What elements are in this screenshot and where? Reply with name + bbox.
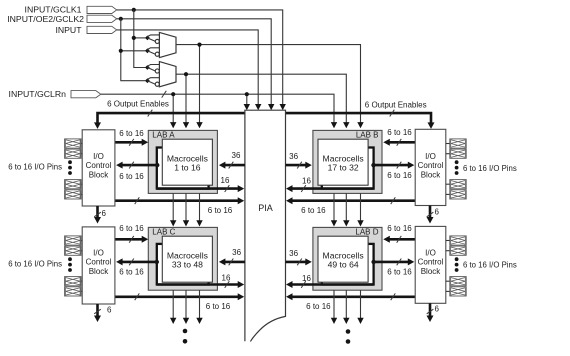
I/O pin LL3 (65, 277, 83, 286)
wire mux U1 output to LAB B drop (176, 45, 364, 129)
svg-text:Control: Control (86, 161, 112, 170)
input pin INPUT/GCLK1 (25, 5, 117, 15)
node mux U1 output junction (197, 43, 201, 47)
bus LAB B to PIA 16 (286, 177, 374, 193)
bus PIA to LAB D 36 (286, 249, 312, 265)
mux U1 trapezoid (159, 32, 176, 57)
wire GCLRn drop to LAB A (170, 94, 176, 128)
svg-text:Block: Block (421, 267, 442, 276)
svg-text:I/O: I/O (93, 152, 104, 161)
I/O pin LR2 (446, 246, 466, 255)
svg-text:I/O: I/O (425, 152, 436, 161)
svg-text:Control: Control (86, 258, 112, 267)
bus right I/O block to PIA 6 to 16 (286, 197, 415, 215)
svg-text:6 to 16: 6 to 16 (206, 302, 231, 311)
I/O pin UR1 (446, 139, 466, 148)
bus upper left I/O block 6 down (94, 206, 107, 224)
input pin INPUT (55, 25, 116, 35)
node LAB C continuation dots (183, 329, 188, 344)
wire mux U2 output to LAB B drop (176, 74, 350, 128)
wire GCLK1 horizontal then down to PIA (117, 10, 286, 110)
svg-text:36: 36 (289, 152, 298, 161)
svg-text:I/O: I/O (93, 248, 104, 257)
wire LAB A to LAB C global lines (170, 193, 203, 226)
wire GCLK2 vertical drop to mux inputs (121, 19, 146, 81)
node UL pin dots (68, 160, 72, 175)
wire mux U1 output drop to LAB A (196, 45, 202, 129)
svg-text:Block: Block (89, 170, 110, 179)
svg-text:6 to 16 I/O Pins: 6 to 16 I/O Pins (463, 261, 517, 270)
I/O pin UR2 (446, 149, 466, 158)
wire GCLRn horizontal then down to LAB B (101, 91, 337, 129)
node UR pin dots (455, 160, 459, 175)
wire INPUT horizontal then down to PIA (117, 30, 262, 110)
svg-text:6 Output Enables: 6 Output Enables (107, 100, 169, 109)
svg-text:INPUT/OE2/GCLK2: INPUT/OE2/GCLK2 (7, 14, 84, 24)
I/O pin LL2 (65, 246, 83, 255)
wire mux U2 output drop to LAB A (183, 74, 189, 128)
svg-text:6 to 16: 6 to 16 (306, 302, 331, 311)
input pin INPUT/OE2/GCLK2 (7, 14, 116, 24)
svg-text:6 to 16: 6 to 16 (301, 206, 326, 215)
bus PIA to LAB B 36 (286, 152, 312, 168)
I/O pin LL1 (65, 236, 83, 245)
node GCLK1 tap junction (132, 8, 136, 12)
svg-text:16: 16 (302, 274, 311, 283)
mux U1 input diamond A (145, 35, 160, 42)
bus LAB D to PIA 16 (286, 274, 374, 288)
svg-text:6: 6 (435, 207, 440, 216)
PIA block (245, 110, 286, 341)
bus lower right I/O block to PIA 6 to 16 (286, 293, 415, 311)
LAB A block (148, 130, 217, 193)
svg-text:6 to 16 I/O Pins: 6 to 16 I/O Pins (8, 260, 62, 269)
svg-text:49 to 64: 49 to 64 (328, 260, 359, 270)
svg-text:6 to 16: 6 to 16 (387, 268, 412, 277)
wire LAB C continuation arrows (170, 290, 203, 324)
bus I/O block to LAB D 6 to 16 (383, 224, 415, 243)
svg-text:16: 16 (302, 177, 311, 186)
svg-text:6 to 16: 6 to 16 (119, 224, 144, 233)
svg-text:LAB D: LAB D (355, 228, 378, 237)
I/O pin UL2 (65, 149, 83, 158)
node LL pin dots (68, 257, 72, 272)
mux U2 input bubble B (155, 82, 159, 86)
svg-text:6 to 16: 6 to 16 (119, 268, 144, 277)
I/O pin UR3 (446, 180, 466, 189)
svg-text:6 to 16: 6 to 16 (208, 206, 233, 215)
bus LAB C to I/O block 6 to 16 (116, 258, 159, 276)
bus PIA to LAB A 36 (219, 151, 245, 169)
node GCLK2-mux1 junction (119, 49, 123, 53)
node GCLK2 tap junction (119, 17, 123, 21)
bus I/O block to LAB C 6 to 16 (115, 224, 148, 243)
node LAB D continuation dots (346, 329, 351, 344)
LAB D block (313, 227, 382, 290)
I/O pin UR4 (446, 190, 466, 199)
mux U1 input bubble A (155, 39, 159, 43)
svg-text:6 to 16 I/O Pins: 6 to 16 I/O Pins (463, 164, 517, 173)
svg-text:INPUT: INPUT (55, 25, 82, 35)
I/O Control Block lower right (415, 226, 446, 303)
bus upper right I/O block 6 down (427, 206, 440, 224)
svg-text:Control: Control (418, 258, 444, 267)
bus PIA to LAB C 36 (219, 248, 245, 265)
bus I/O block to LAB B 6 to 16 (383, 128, 415, 146)
svg-text:INPUT/GCLRn: INPUT/GCLRn (9, 89, 67, 99)
I/O pin LR1 (446, 236, 466, 245)
svg-text:6 to 16: 6 to 16 (119, 172, 144, 181)
mux U2 input bubble A (155, 69, 159, 73)
node GCLK1-mux1 junction (132, 36, 136, 40)
wire right 6 Output Enables bus (286, 100, 435, 129)
I/O pin UL3 (65, 180, 83, 189)
wire left 6 Output Enables bus (94, 100, 245, 129)
svg-text:6 to 16: 6 to 16 (387, 224, 412, 233)
svg-text:Block: Block (421, 170, 442, 179)
svg-text:6: 6 (435, 304, 440, 313)
svg-text:16: 16 (221, 176, 230, 185)
svg-text:6 to 16: 6 to 16 (387, 171, 412, 180)
svg-text:PIA: PIA (258, 203, 273, 213)
mux U1 input bubble B (155, 52, 159, 56)
node GCLRn-LABA junction (171, 92, 175, 96)
svg-text:Block: Block (89, 267, 110, 276)
svg-text:16: 16 (222, 274, 231, 283)
svg-text:I/O: I/O (425, 248, 436, 257)
svg-text:17 to 32: 17 to 32 (328, 163, 359, 173)
I/O Control Block upper right (415, 129, 446, 205)
mux U1 input diamond B (145, 48, 160, 54)
svg-text:LAB C: LAB C (152, 228, 175, 237)
svg-text:36: 36 (232, 151, 241, 160)
svg-text:36: 36 (232, 248, 241, 257)
input pin INPUT/GCLRn (9, 89, 101, 99)
wire LAB B to LAB D global lines (331, 193, 364, 226)
LAB B block (313, 130, 382, 193)
wire GCLK1 vertical drop to mux inputs (134, 10, 146, 68)
bus left I/O block to PIA 6 to 16 (115, 197, 244, 215)
bus lower left I/O block 6 down (94, 304, 112, 322)
LAB C block (148, 227, 217, 290)
svg-text:33 to 48: 33 to 48 (172, 260, 203, 270)
bus lower left I/O block to PIA 6 to 16 (115, 293, 244, 311)
svg-text:6: 6 (107, 305, 112, 314)
bus LAB D to I/O block 6 to 16 (371, 258, 414, 276)
wire GCLRn drop to PIA (244, 94, 250, 110)
bus lower right I/O block 6 down (427, 303, 440, 322)
wire GCLK2 horizontal then down to PIA (117, 19, 275, 110)
svg-text:6 to 16: 6 to 16 (119, 129, 144, 138)
bus LAB C to PIA 16 (157, 274, 244, 289)
I/O pin LR4 (446, 287, 466, 296)
I/O Control Block lower left (82, 227, 115, 304)
node mux U2 output junction (184, 72, 188, 76)
svg-text:6 to 16 I/O Pins: 6 to 16 I/O Pins (8, 163, 62, 172)
I/O pin LL4 (65, 287, 83, 296)
bus LAB A to PIA 16 (157, 176, 244, 192)
svg-text:6 to 16: 6 to 16 (387, 128, 412, 137)
svg-text:6: 6 (102, 209, 107, 218)
mux U2 input diamond B (145, 78, 160, 85)
wire LAB D continuation arrows (331, 290, 364, 324)
mux U2 input diamond A (145, 65, 160, 72)
bus LAB B to I/O block 6 to 16 (371, 162, 414, 181)
mux U2 trapezoid (159, 62, 176, 87)
node GCLRn-PIA junction (245, 92, 249, 96)
svg-text:LAB B: LAB B (356, 131, 379, 140)
svg-text:6 Output Enables: 6 Output Enables (365, 100, 427, 109)
svg-text:36: 36 (289, 249, 298, 258)
I/O pin LR3 (446, 277, 466, 286)
svg-text:1 to 16: 1 to 16 (174, 163, 201, 173)
I/O pin UL1 (65, 139, 83, 148)
svg-text:LAB A: LAB A (152, 131, 175, 140)
bus LAB A to I/O block 6 to 16 (116, 162, 159, 181)
bus I/O block to LAB A 6 to 16 (115, 129, 148, 146)
node LR pin dots (455, 257, 459, 272)
svg-text:Control: Control (418, 161, 444, 170)
I/O pin UL4 (65, 190, 83, 199)
I/O Control Block upper left (82, 130, 115, 206)
